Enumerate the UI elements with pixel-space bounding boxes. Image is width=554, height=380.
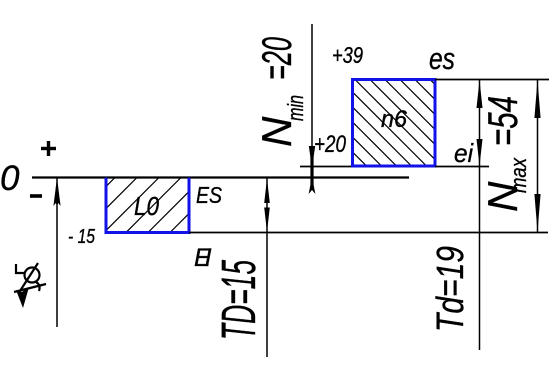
tolerance zone n6 border (blue) bbox=[353, 80, 436, 167]
tolerance zone L0 border (blue) bbox=[106, 178, 189, 233]
EI level line bbox=[189, 232, 548, 234]
nominal size symbol (bottom left) bbox=[14, 263, 46, 292]
TD arrows bbox=[264, 179, 270, 204]
Nmin lower arrow (points up to zero line) bbox=[309, 177, 316, 194]
minus sign bbox=[30, 194, 42, 198]
svg-text:=20: =20 bbox=[253, 37, 300, 80]
svg-text:+39: +39 bbox=[332, 42, 363, 68]
svg-text:max: max bbox=[506, 157, 531, 193]
svg-text:es: es bbox=[429, 41, 455, 76]
svg-text:+20: +20 bbox=[314, 131, 347, 158]
svg-text:EI: EI bbox=[194, 244, 212, 272]
Nmin upper arrow (points down to ei line) bbox=[309, 146, 315, 168]
svg-text:ES: ES bbox=[196, 182, 223, 208]
plus sign bbox=[41, 141, 56, 156]
svg-text:L0: L0 bbox=[134, 191, 159, 221]
svg-text:- 15: - 15 bbox=[68, 226, 96, 248]
Nmax arrows bbox=[534, 80, 540, 118]
svg-text:n6: n6 bbox=[381, 106, 408, 133]
svg-text:Td=19: Td=19 bbox=[430, 246, 472, 332]
dimension Td line bbox=[479, 80, 481, 351]
es level line bbox=[435, 79, 549, 81]
svg-text:min: min bbox=[283, 95, 308, 121]
Td arrows bbox=[477, 80, 483, 108]
dimension -15 arrow bbox=[53, 178, 60, 206]
label Nmin=20 (rotated) bbox=[253, 37, 308, 147]
zero line bbox=[32, 176, 409, 178]
svg-text:ei: ei bbox=[454, 138, 474, 168]
dimension -15 line bbox=[56, 178, 58, 328]
ei extension line right of n6 bbox=[435, 166, 489, 168]
svg-text:0: 0 bbox=[0, 159, 20, 198]
tolerance zone L0 hatching bbox=[60, 178, 225, 233]
label Nmax=54 (rotated) bbox=[479, 96, 531, 212]
tolerance zone n6 hatching bbox=[280, 80, 517, 167]
dimension Nmax line bbox=[537, 80, 539, 233]
svg-text:=54: =54 bbox=[479, 96, 526, 146]
ei extension line left of n6 bbox=[300, 166, 352, 168]
dimension Nmin line bbox=[311, 24, 313, 166]
svg-text:TD=15: TD=15 bbox=[213, 260, 266, 340]
dimension TD line bbox=[266, 178, 268, 358]
